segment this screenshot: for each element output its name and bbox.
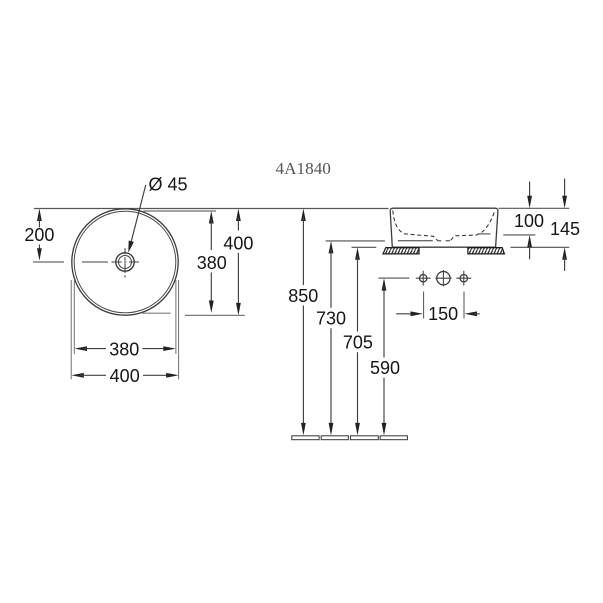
705 dimension (343, 247, 373, 435)
100 dimension (514, 182, 544, 260)
left mounting pad (hatched) (383, 248, 419, 254)
faucet hole right (456, 271, 471, 286)
400 vertical dimension (223, 209, 253, 316)
svg-text:400: 400 (223, 233, 253, 253)
svg-text:145: 145 (550, 219, 580, 239)
400 bottom tangent reference line (185, 314, 245, 316)
850 dimension (288, 209, 318, 436)
bowl inner edge line (right) (478, 233, 491, 235)
svg-text:100: 100 (514, 211, 544, 231)
svg-text:400: 400 (110, 366, 140, 386)
svg-text:Ø 45: Ø 45 (149, 175, 188, 195)
leader line to drain (131, 185, 146, 241)
floor segment 1 (292, 436, 319, 440)
washbasin side view outline (390, 208, 498, 247)
200 dimension (24, 209, 54, 261)
right mounting pad (hatched) (468, 248, 505, 254)
svg-text:850: 850 (288, 286, 318, 306)
basin inner rim circle (top view) (74, 211, 176, 313)
svg-text:4A1840: 4A1840 (276, 159, 331, 178)
leader arrow (128, 241, 134, 253)
inner bowl hidden profile (dashed) (393, 211, 495, 241)
400 horizontal dimension (71, 366, 178, 386)
590 reference line (378, 277, 409, 279)
svg-text:705: 705 (343, 333, 373, 353)
floor segment 4 (380, 436, 407, 440)
380 vertical dimension (197, 211, 227, 313)
top reference line (basin top level, right span) (499, 207, 570, 209)
svg-text:150: 150 (428, 304, 458, 324)
380 left extension line (73, 280, 75, 354)
100 lower reference line (503, 234, 535, 236)
150 left extension line (423, 292, 425, 319)
150 dimension (396, 304, 480, 324)
400 right extension line (178, 280, 180, 379)
380 bottom tangent reference line (142, 312, 171, 314)
380 top tangent reference line (144, 210, 217, 212)
150 right extension line (463, 292, 465, 319)
svg-text:200: 200 (24, 225, 54, 245)
basin bottom reference line (705) (352, 246, 377, 248)
730 dimension (316, 241, 346, 436)
145 bottom reference line (511, 246, 570, 248)
bowl bottom line (solid, left) (398, 240, 433, 242)
svg-text:730: 730 (316, 309, 346, 329)
svg-text:590: 590 (370, 358, 400, 378)
drain horizontal centerline (33, 261, 139, 263)
faucet hole center (435, 270, 451, 286)
145 dimension (550, 179, 580, 271)
drain outer circle (116, 253, 134, 271)
faucet hole left (416, 271, 431, 286)
floor segment 2 (321, 436, 348, 440)
590 dimension (370, 278, 400, 435)
380 right extension line (175, 280, 177, 354)
counter level reference line (730) (326, 240, 385, 242)
drain vertical centerline (124, 248, 126, 277)
380 horizontal dimension (75, 339, 176, 359)
top reference line (basin top level, left span) (34, 208, 389, 210)
svg-text:380: 380 (109, 339, 139, 359)
basin outer rim circle (top view) (72, 209, 178, 315)
floor segment 3 (350, 436, 378, 440)
drain inner circle (119, 256, 132, 269)
bowl bottom dashes near drain (437, 240, 450, 242)
svg-text:380: 380 (197, 253, 227, 273)
400 left extension line (70, 280, 72, 379)
